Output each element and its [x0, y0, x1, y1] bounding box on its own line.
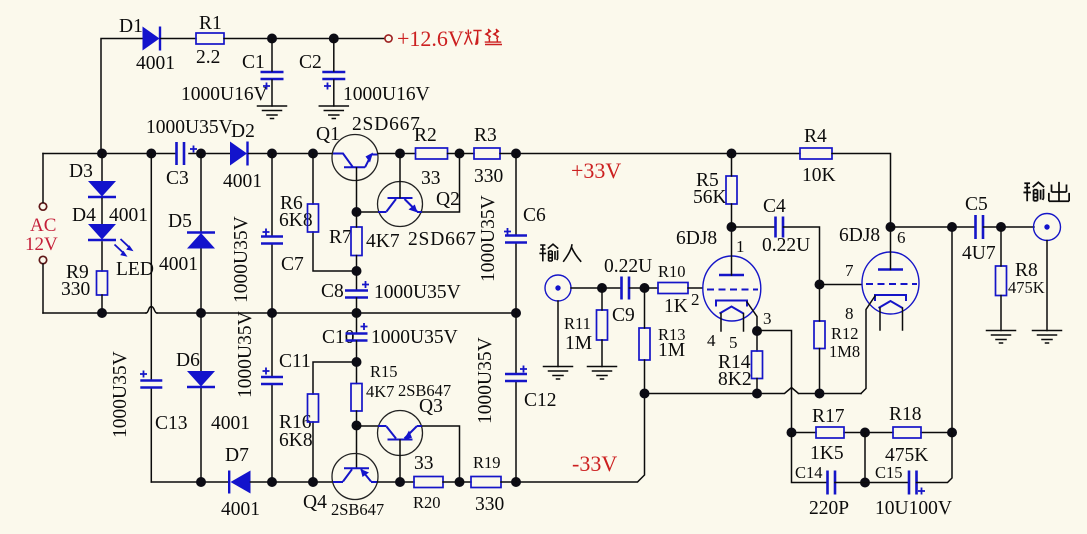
wire C10 to R15 node: [352, 341, 362, 384]
svg-text:C10: C10: [322, 327, 355, 348]
svg-text:4001: 4001: [159, 254, 198, 275]
svg-text:R2: R2: [414, 125, 437, 146]
capacitor C2: [299, 52, 430, 105]
capacitor C10: [322, 323, 458, 348]
resistor R3: [474, 125, 503, 187]
wire riser R18-right to C5 node: [951, 227, 953, 433]
wire C1 leads: [271, 39, 273, 107]
resistor R13: [639, 325, 686, 361]
svg-text:4001: 4001: [223, 171, 262, 192]
svg-text:C5: C5: [965, 194, 988, 215]
svg-text:2SB647: 2SB647: [398, 381, 451, 400]
wire tube2 cathode lead pin 8: [845, 296, 875, 394]
svg-text:1000U35V: 1000U35V: [475, 337, 496, 424]
wire bottom (-) rail left part: [151, 477, 228, 487]
svg-text:1M: 1M: [658, 340, 685, 361]
wire Q2 collector to R7 node: [352, 207, 378, 217]
wire column C13: [150, 154, 152, 483]
diode D1: [119, 16, 175, 74]
svg-text:1M: 1M: [565, 333, 592, 354]
resistor R5: [693, 170, 737, 208]
svg-text:4: 4: [707, 331, 716, 350]
wire cathode bias rail with hop over feedback riser: [640, 388, 862, 399]
svg-text:2: 2: [691, 290, 700, 309]
wire AC bottom terminal to mid rail: [42, 264, 44, 313]
capacitor C6: [478, 195, 546, 282]
svg-text:AC: AC: [30, 215, 56, 236]
svg-text:1000U35V: 1000U35V: [110, 351, 131, 438]
svg-text:5: 5: [729, 333, 738, 352]
resistor R17: [810, 406, 845, 464]
svg-text:C15: C15: [875, 463, 903, 482]
wire Q2 emitter riser to R2/R3 node: [423, 149, 465, 213]
svg-text:1: 1: [736, 237, 745, 256]
capacitor C8: [321, 281, 461, 303]
output jack 输出: [1034, 214, 1061, 241]
svg-text:3: 3: [763, 309, 772, 328]
svg-text:R7: R7: [329, 227, 352, 248]
wire bottom rail D7 to Q4: [251, 477, 333, 487]
wire grid node to tube2 pin 7: [820, 261, 862, 285]
svg-text:6: 6: [897, 228, 906, 247]
capacitor C11: [235, 311, 311, 398]
wire R13 leads: [644, 288, 646, 394]
svg-text:LED: LED: [116, 259, 154, 280]
wire tube1 heater legs pins 4,5: [707, 314, 744, 353]
svg-text:D5: D5: [168, 211, 192, 232]
wire C3 to D2: [189, 149, 230, 159]
label 输入: [539, 244, 581, 262]
svg-text:2.2: 2.2: [196, 47, 220, 68]
wire R7 leads: [356, 212, 358, 227]
wire C15 right to R18 right riser: [917, 433, 953, 483]
capacitor C13: [110, 351, 188, 438]
resistor R10: [658, 262, 688, 317]
wire Q2 base lead: [399, 154, 401, 198]
resistor R16 leads: [313, 362, 357, 482]
wire D3 to D4: [101, 199, 103, 225]
label +12.6V灯丝: [397, 26, 502, 51]
wire tube2 heater legs: [880, 308, 903, 330]
svg-text:Q2: Q2: [436, 189, 460, 210]
svg-text:C12: C12: [524, 390, 557, 411]
wire R4 to tube2 plate pin 6: [832, 154, 906, 248]
svg-text:330: 330: [474, 166, 503, 187]
resistor R2: [414, 125, 448, 189]
wire column C7: [271, 154, 273, 314]
wire tube2 plate lead: [890, 227, 892, 270]
wire Q3 base lead: [399, 440, 401, 482]
resistor R16: [279, 394, 319, 451]
svg-text:C3: C3: [166, 168, 189, 189]
svg-text:6DJ8: 6DJ8: [839, 225, 880, 246]
svg-text:1000U35V: 1000U35V: [371, 327, 458, 348]
svg-text:R19: R19: [473, 453, 501, 472]
wire Q3 collector to R15/Q4 node: [357, 425, 378, 427]
wire C5 to output jack: [984, 222, 1035, 232]
svg-text:1000U35V: 1000U35V: [374, 282, 461, 303]
wire bottom rail Q4 to R20: [378, 477, 415, 487]
svg-text:C1: C1: [242, 52, 265, 73]
terminal AC input top: [39, 203, 46, 210]
svg-text:1000U35V: 1000U35V: [146, 117, 233, 138]
wire tube1 plate lead pin 1: [727, 222, 745, 275]
wire R20 to R19: [443, 481, 471, 483]
wire R3 to +33V rail: [500, 149, 800, 159]
svg-text:56K: 56K: [693, 187, 727, 208]
wire Q1 base lead: [356, 168, 358, 212]
wire R9 to mid rail: [101, 295, 103, 313]
svg-text:R10: R10: [658, 262, 686, 281]
LED arrows: [115, 239, 154, 280]
svg-text:330: 330: [61, 279, 90, 300]
svg-text:4U7: 4U7: [962, 243, 996, 264]
diode D6: [176, 350, 250, 434]
terminal +12.6V heater output: [385, 35, 392, 42]
wire mid (0V) rail with hop over C13 column: [43, 307, 521, 319]
resistor R15: [351, 362, 398, 411]
svg-text:10K: 10K: [802, 165, 836, 186]
resistor R9: [61, 262, 108, 300]
svg-text:+33V: +33V: [571, 158, 621, 183]
wire R12 leads: [819, 285, 821, 394]
svg-text:6DJ8: 6DJ8: [676, 228, 717, 249]
svg-text:R4: R4: [804, 126, 827, 147]
svg-text:6K8: 6K8: [279, 430, 313, 451]
resistor R20: [413, 453, 443, 512]
wire pin1 node to C4: [732, 226, 776, 228]
tube U2 6DJ8 second triode: [839, 225, 919, 314]
resistor R7: [329, 227, 400, 256]
wire AC top terminal to +rail: [42, 154, 44, 203]
ground C1 ground: [258, 106, 287, 119]
svg-text:R15: R15: [370, 362, 398, 381]
wire R11 leads: [601, 288, 603, 367]
wire tube1 cathode lead pin 3: [747, 302, 772, 351]
capacitor C4: [762, 196, 810, 256]
resistor R11: [564, 310, 608, 354]
svg-text:+12.6V: +12.6V: [397, 26, 464, 51]
capacitor C12: [475, 337, 557, 424]
svg-text:12V: 12V: [25, 234, 58, 255]
svg-text:C4: C4: [763, 196, 786, 217]
svg-text:R11: R11: [564, 314, 591, 333]
wire feedback node R17 row: [787, 428, 958, 438]
svg-text:1M8: 1M8: [829, 342, 860, 361]
ground R11 ground: [588, 367, 617, 380]
wire R10 to tube grid pin 2: [688, 287, 702, 289]
svg-text:C6: C6: [523, 205, 546, 226]
capacitor C15: [875, 463, 952, 519]
resistor R12: [814, 321, 860, 361]
wire R14 to bias rail: [756, 379, 758, 394]
wire column D6: [200, 313, 202, 482]
wire output jack ground lead: [1046, 241, 1048, 331]
svg-text:2SD667: 2SD667: [352, 114, 421, 135]
resistor R6: [279, 193, 319, 232]
terminal AC input bottom: [39, 256, 46, 263]
transistor Q2 2SD667: [378, 182, 477, 251]
svg-text:220P: 220P: [809, 498, 849, 519]
svg-text:4K7: 4K7: [366, 382, 394, 401]
svg-text:1000U16V: 1000U16V: [343, 84, 430, 105]
wire jack ground lead: [557, 301, 559, 367]
transistor Q1 2SD667: [316, 114, 421, 181]
diode D5: [159, 211, 215, 275]
wire C8 to C10: [356, 298, 358, 333]
svg-text:D4: D4: [72, 205, 96, 226]
ground output jack ground: [1033, 331, 1062, 344]
resistor R4: [800, 126, 836, 186]
wire R15 to Q4 base node: [352, 411, 362, 431]
wire C2 leads: [333, 39, 335, 107]
wire R19 to -33V rail and corner up to bias rail: [501, 394, 645, 488]
wire Q3 emitter riser to R20/R19 node: [423, 426, 465, 487]
wire rail2 from AC to C3: [43, 149, 176, 159]
svg-text:4001: 4001: [221, 499, 260, 520]
wire pin6 node to C5: [891, 222, 976, 232]
input jack 输入: [545, 275, 571, 301]
wire column C6: [515, 154, 517, 314]
svg-text:4001: 4001: [211, 413, 250, 434]
svg-text:Q4: Q4: [303, 492, 327, 513]
svg-text:R17: R17: [812, 406, 845, 427]
wire top rail left segment: [101, 39, 142, 154]
svg-text:C8: C8: [321, 281, 344, 302]
svg-text:1000U16V: 1000U16V: [181, 84, 268, 105]
capacitor C5: [962, 194, 996, 264]
resistor R8: [996, 260, 1045, 297]
svg-text:D6: D6: [176, 350, 200, 371]
svg-text:-33V: -33V: [572, 451, 617, 476]
diode D7: [221, 445, 260, 520]
diode D2: [223, 121, 262, 192]
label 输出: [1023, 182, 1069, 201]
capacitor C3: [146, 117, 233, 189]
svg-text:1K5: 1K5: [810, 443, 844, 464]
svg-text:D2: D2: [231, 121, 255, 142]
capacitor C9: [604, 256, 652, 326]
svg-text:330: 330: [475, 494, 504, 515]
svg-text:Q1: Q1: [316, 124, 340, 145]
wire Q4 base lead: [356, 426, 358, 469]
svg-text:7: 7: [845, 261, 854, 280]
svg-text:C11: C11: [279, 351, 311, 372]
wire C14 left leads: [792, 433, 828, 483]
svg-text:2SD667: 2SD667: [408, 229, 477, 250]
transistor Q4 2SB647: [303, 454, 384, 520]
svg-text:1000U35V: 1000U35V: [478, 195, 499, 282]
capacitor C1: [181, 52, 284, 105]
svg-text:10U100V: 10U100V: [875, 498, 952, 519]
svg-text:1K: 1K: [664, 296, 688, 317]
svg-text:C14: C14: [795, 463, 823, 482]
svg-text:33: 33: [414, 453, 434, 474]
svg-text:R18: R18: [889, 404, 922, 425]
resistor R1: [196, 13, 224, 68]
wire R17/R18 mid node down to C14/C15 node: [860, 433, 870, 488]
svg-text:4001: 4001: [109, 205, 148, 226]
svg-text:4001: 4001: [136, 53, 175, 74]
svg-text:8: 8: [845, 304, 854, 323]
svg-text:33: 33: [421, 168, 441, 189]
svg-text:D3: D3: [69, 161, 93, 182]
wire jack to R11 node: [571, 283, 621, 293]
wire R8 leads: [1000, 227, 1002, 331]
svg-text:C13: C13: [155, 413, 188, 434]
tube U1 6DJ8 first triode: [676, 228, 761, 321]
ground R8 ground: [987, 331, 1016, 344]
svg-text:0.22U: 0.22U: [762, 235, 810, 256]
svg-text:0.22U: 0.22U: [604, 256, 652, 277]
svg-text:1000U35V: 1000U35V: [235, 311, 256, 398]
wire C4 to grid node of tube2: [784, 227, 825, 290]
svg-text:C9: C9: [612, 305, 635, 326]
svg-text:2SB647: 2SB647: [331, 500, 384, 519]
wire C14 to C15: [835, 482, 909, 484]
ground input jack ground: [544, 367, 573, 380]
label AC 12V: [25, 215, 58, 255]
wire column C12: [515, 313, 517, 482]
resistor R14: [718, 351, 763, 390]
resistor R19: [471, 453, 504, 515]
svg-text:8K2: 8K2: [718, 369, 752, 390]
svg-text:4K7: 4K7: [366, 231, 400, 252]
resistor R6 with leads: [313, 154, 357, 272]
wire column D5: [200, 154, 202, 314]
ground C2 ground: [319, 106, 348, 119]
wire column C11: [271, 313, 273, 482]
wire D2 to Q1: [249, 149, 333, 159]
svg-text:R3: R3: [474, 125, 497, 146]
wire D4 to R9: [101, 242, 103, 271]
resistor R18: [885, 404, 928, 466]
svg-text:C2: C2: [299, 52, 322, 73]
capacitor C14: [795, 463, 849, 519]
wire R5 leads: [731, 154, 733, 228]
wire C9 to R10: [630, 283, 659, 293]
wire column D3/D4 top: [101, 154, 103, 182]
diode D3: [69, 161, 148, 226]
capacitor C7: [231, 216, 304, 303]
svg-text:R20: R20: [413, 493, 441, 512]
transistor Q3 2SB647: [378, 381, 452, 456]
wire R1 to heater terminal: [224, 34, 385, 44]
svg-text:D1: D1: [119, 16, 143, 37]
svg-text:475K: 475K: [1008, 278, 1045, 297]
wire D1 to R1: [161, 38, 197, 40]
svg-text:C7: C7: [281, 254, 304, 275]
svg-text:R1: R1: [199, 13, 222, 34]
wire pin3 node to feedback riser: [757, 331, 792, 433]
wire Q1 emitter to R2 node: [378, 149, 416, 159]
diode D4 (LED indicator): [72, 205, 116, 240]
svg-text:D7: D7: [225, 445, 249, 466]
svg-text:1000U35V: 1000U35V: [231, 216, 252, 303]
svg-text:R12: R12: [831, 324, 859, 343]
wire R2 to R3: [448, 153, 475, 155]
